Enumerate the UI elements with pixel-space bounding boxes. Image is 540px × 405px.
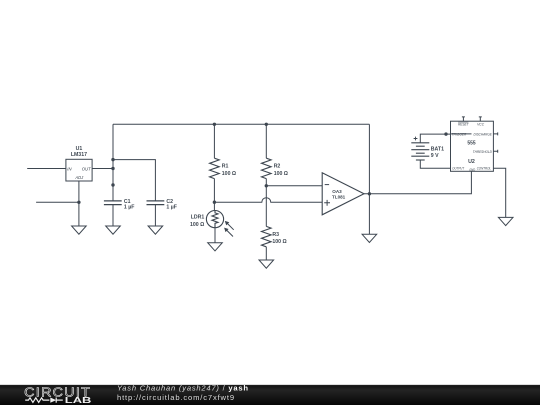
wire: op-amp output to U2 GND pin: [364, 171, 472, 194]
U2 pin DISCHARGE stub: [493, 132, 497, 135]
svg-text:LAB: LAB: [65, 395, 92, 405]
wire: R1 to LDR1: [213, 179, 215, 211]
regulator U1: [66, 159, 92, 181]
wire: right vertical bus to ground: [368, 124, 370, 234]
svg-text:100 Ω: 100 Ω: [272, 239, 286, 245]
capacitor C2: [147, 201, 165, 205]
resistor R2: [261, 158, 271, 178]
svg-text:BAT1: BAT1: [431, 146, 444, 152]
svg-text:1 µF: 1 µF: [124, 204, 134, 210]
U2 RESET overbar: [458, 121, 468, 123]
svg-text:R3: R3: [272, 232, 279, 238]
ground (U2 CONTROL): [498, 217, 513, 225]
svg-text:http://circuitlab.com/c7xfwt9: http://circuitlab.com/c7xfwt9: [117, 393, 235, 402]
svg-text:DISCHARGE: DISCHARGE: [474, 132, 493, 136]
battery BAT1: [411, 143, 429, 160]
svg-text:100 Ω: 100 Ω: [190, 222, 204, 228]
ground (right bus): [362, 234, 377, 242]
wire: left branch into ADJ net: [36, 201, 79, 203]
footer bar: [0, 385, 540, 405]
svg-text:R2: R2: [274, 164, 281, 170]
U2 pin VCC stub: [479, 117, 482, 121]
svg-text:TRIGGER: TRIGGER: [452, 132, 467, 136]
junction dots: [77, 123, 447, 204]
op-amp OA3: [322, 173, 364, 215]
wire: R2 to R3: [265, 179, 267, 227]
U2 pin THRESHOLD stub: [493, 150, 497, 153]
wire: node B to op-amp minus input: [266, 185, 322, 187]
wire: U1 ADJ stem down: [78, 181, 80, 226]
wire: U2 CONTROL to ground: [493, 168, 505, 217]
svg-text:100 Ω: 100 Ω: [222, 171, 236, 177]
svg-text:U2: U2: [468, 159, 475, 165]
wire: top supply bus: [113, 123, 369, 125]
svg-text:VCC: VCC: [477, 122, 484, 126]
wire: left vertical from bus down to C1: [112, 124, 114, 201]
svg-text:555: 555: [467, 140, 475, 146]
svg-text:CONTROL: CONTROL: [477, 167, 491, 171]
svg-text:LDR1: LDR1: [191, 215, 205, 221]
svg-text:100 Ω: 100 Ω: [274, 171, 288, 177]
U2 pin RESET stub: [462, 117, 465, 121]
svg-text:TL081: TL081: [332, 194, 346, 199]
svg-text:THRESHOLD: THRESHOLD: [473, 150, 492, 154]
ground (U1 ADJ): [72, 226, 87, 234]
wire: battery minus to U2 OUTPUT: [420, 160, 450, 168]
U2 labels: [452, 122, 493, 172]
CircuitLab logo: resistor-diode wire: [25, 398, 63, 403]
wire: C1 to ground: [112, 205, 114, 226]
svg-text:Yash Chauhan (yash247) / yash: Yash Chauhan (yash247) / yash: [117, 383, 249, 392]
svg-text:U1: U1: [76, 146, 83, 152]
wire: input to U1 IN: [27, 168, 66, 170]
wire: LDR1 to ground: [214, 228, 216, 243]
wire: battery plus to U2 TRIGGER: [420, 134, 450, 143]
resistor R1: [210, 158, 220, 178]
ground (LDR1): [208, 243, 223, 251]
resistor R3: [261, 226, 271, 246]
svg-text:ADJ: ADJ: [74, 175, 84, 180]
photoresistor LDR1: [206, 211, 223, 228]
timer U2 (555): [451, 121, 494, 171]
svg-text:9 V: 9 V: [431, 153, 439, 159]
svg-text:LM317: LM317: [71, 152, 87, 158]
wire: branch to C2: [113, 160, 155, 201]
svg-text:OUT: OUT: [82, 166, 91, 171]
capacitor C1: [104, 201, 122, 205]
wire: C2 to ground: [154, 205, 156, 226]
ground (C1): [106, 226, 121, 234]
wire: bus down to R2: [265, 124, 267, 158]
svg-text:GND: GND: [469, 168, 476, 172]
U2 TRIGGER pin internal lead: [451, 133, 472, 135]
svg-text:RESET: RESET: [458, 122, 469, 126]
ground (R3): [259, 260, 274, 268]
ground (C2): [148, 226, 163, 234]
svg-text:1 µF: 1 µF: [166, 204, 176, 210]
wire: U1 OUT to node: [92, 168, 113, 170]
wire: bus down to R1: [213, 124, 215, 158]
wire: node A to op-amp plus input (with hop): [214, 198, 322, 202]
wire: R3 to ground: [265, 247, 267, 260]
svg-text:R1: R1: [222, 164, 229, 170]
svg-text:OUTPUT: OUTPUT: [452, 167, 464, 171]
